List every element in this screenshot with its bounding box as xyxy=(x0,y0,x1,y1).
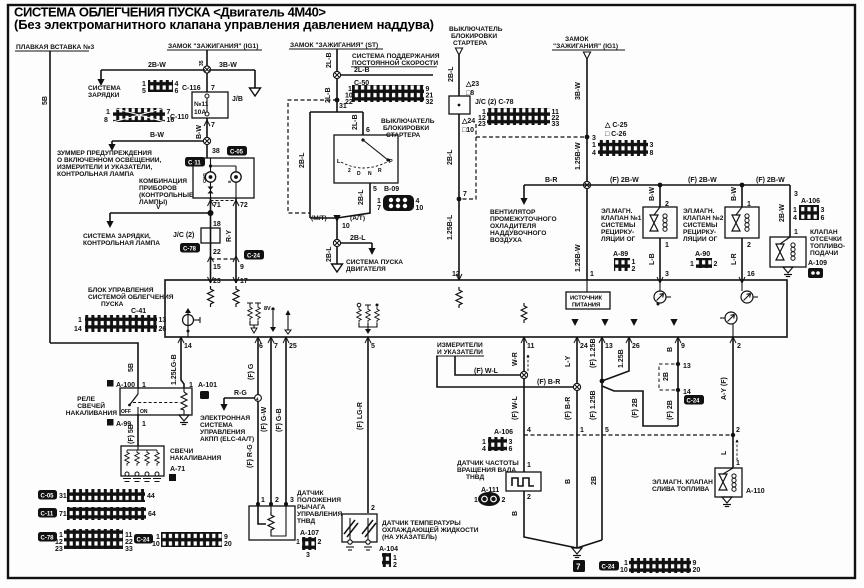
svg-text:НАКАЛИВАНИЯ: НАКАЛИВАНИЯ xyxy=(66,410,117,417)
svg-text:16: 16 xyxy=(747,271,755,278)
svg-text:10A: 10A xyxy=(194,109,206,116)
svg-text:9: 9 xyxy=(224,534,228,541)
svg-text:B-W: B-W xyxy=(150,132,164,139)
svg-text:7: 7 xyxy=(463,191,467,198)
svg-text:V: V xyxy=(156,204,161,211)
svg-text:1: 1 xyxy=(78,317,82,324)
svg-text:1: 1 xyxy=(482,439,486,446)
svg-text:8V: 8V xyxy=(264,306,271,312)
svg-text:23: 23 xyxy=(478,121,486,128)
svg-text:3: 3 xyxy=(290,497,294,504)
svg-text:(F) R-G: (F) R-G xyxy=(247,444,254,468)
wire pin24 down to ground xyxy=(576,337,578,548)
fuel cut-off valve A-109 xyxy=(770,237,806,267)
svg-text:НАКАЛИВАНИЯ: НАКАЛИВАНИЯ xyxy=(170,455,221,462)
svg-text:B-W: B-W xyxy=(196,125,203,139)
svg-text:C-78: C-78 xyxy=(183,247,197,253)
svg-text:4: 4 xyxy=(793,215,797,222)
svg-text:6: 6 xyxy=(821,215,825,222)
svg-text:"ЗАЖИГАНИЯ" (IG1): "ЗАЖИГАНИЯ" (IG1) xyxy=(553,43,618,50)
svg-text:СИСТЕМЫ: СИСТЕМЫ xyxy=(683,222,718,229)
svg-text:1: 1 xyxy=(106,109,110,116)
svg-text:1: 1 xyxy=(624,560,628,567)
svg-text:2: 2 xyxy=(348,168,351,174)
svg-text:2B: 2B xyxy=(591,476,598,485)
svg-text:ДАТЧИК ТЕМПЕРАТУРЫ: ДАТЧИК ТЕМПЕРАТУРЫ xyxy=(382,520,461,527)
svg-text:23: 23 xyxy=(213,278,221,285)
svg-text:(F) G-B: (F) G-B xyxy=(276,408,283,432)
svg-text:2B-L: 2B-L xyxy=(350,235,366,242)
svg-text:B: B xyxy=(512,511,519,516)
svg-text:1: 1 xyxy=(793,207,797,214)
svg-text:L: L xyxy=(721,450,728,455)
svg-text:ЗАМОК: ЗАМОК xyxy=(565,36,590,43)
driver symbol above pin2 xyxy=(720,312,737,337)
svg-text:13: 13 xyxy=(683,363,691,370)
svg-text:32: 32 xyxy=(426,99,434,106)
svg-text:C-24: C-24 xyxy=(602,565,616,571)
svg-text:20: 20 xyxy=(693,567,701,574)
svg-text:6: 6 xyxy=(175,88,179,95)
svg-text:ВЫКЛЮЧАТЕЛЬ: ВЫКЛЮЧАТЕЛЬ xyxy=(449,26,503,33)
svg-text:ПРИБОРОВ: ПРИБОРОВ xyxy=(139,185,177,192)
svg-text:OFF: OFF xyxy=(121,409,131,415)
connector row C-78 bottom xyxy=(38,529,133,553)
svg-text:5: 5 xyxy=(373,186,377,193)
svg-text:ПУСКА: ПУСКА xyxy=(101,301,124,308)
current source symbol near pin14 xyxy=(183,308,201,337)
svg-text:L-Y: L-Y xyxy=(565,355,572,367)
svg-text:И УКАЗАТЕЛИ: И УКАЗАТЕЛИ xyxy=(437,349,483,356)
connector A-109 xyxy=(808,268,823,278)
svg-text:10: 10 xyxy=(342,223,350,230)
svg-text:СВЕЧЕЙ: СВЕЧЕЙ xyxy=(77,401,105,410)
wire 5B vertical from fusible link xyxy=(49,51,51,343)
resistor above pin11 xyxy=(521,303,527,323)
connector C-110 xyxy=(104,108,189,124)
fuel drain solenoid valve A-110 xyxy=(715,468,742,497)
wire B-R / (F)2B-W horizontal bus xyxy=(524,184,790,186)
svg-text:18: 18 xyxy=(213,221,221,228)
svg-text:2: 2 xyxy=(318,539,322,546)
svg-text:ИСТОЧНИК: ИСТОЧНИК xyxy=(570,296,603,302)
svg-text:10: 10 xyxy=(620,567,628,574)
svg-text:5: 5 xyxy=(371,343,375,350)
svg-text:C-24: C-24 xyxy=(137,538,151,544)
svg-text:ОХЛАЖДАЮЩЕЙ ЖИДКОСТИ: ОХЛАЖДАЮЩЕЙ ЖИДКОСТИ xyxy=(382,525,479,534)
wire (F)B-R from gauges to pin24 wire xyxy=(437,356,573,387)
svg-text:3: 3 xyxy=(592,135,596,142)
svg-text:ЛЯЦИИ ОГ: ЛЯЦИИ ОГ xyxy=(683,236,718,243)
svg-text:АКПП (ELC-4A/T): АКПП (ELC-4A/T) xyxy=(200,436,254,443)
svg-text:C-24: C-24 xyxy=(687,399,701,405)
wire pin13 down xyxy=(601,337,603,540)
wire IG1 below J/B xyxy=(206,118,208,158)
wire relay to glow plugs xyxy=(137,414,139,446)
output driver arrows inside box xyxy=(571,319,578,326)
svg-text:A-109: A-109 xyxy=(808,260,827,267)
svg-text:1: 1 xyxy=(592,142,596,149)
svg-text:(Без электромагнитного клапана: (Без электромагнитного клапана управлени… xyxy=(14,17,434,32)
svg-text:44: 44 xyxy=(147,493,155,500)
svg-text:13: 13 xyxy=(605,343,613,350)
svg-text:2: 2 xyxy=(747,242,751,249)
wire IG1 main vertical xyxy=(206,50,208,92)
svg-text:1.25B: 1.25B xyxy=(618,349,625,368)
ground below relay xyxy=(179,415,189,425)
svg-text:КЛАПАН №2: КЛАПАН №2 xyxy=(683,215,724,222)
svg-text:2: 2 xyxy=(737,343,741,350)
svg-text:7: 7 xyxy=(274,343,278,350)
svg-text:□ C-26: □ C-26 xyxy=(605,131,626,138)
svg-text:14: 14 xyxy=(683,389,691,396)
svg-text:(КОНТРОЛЬНЫЕ: (КОНТРОЛЬНЫЕ xyxy=(139,192,194,199)
svg-text:1.25B-L: 1.25B-L xyxy=(447,214,454,240)
svg-text:2: 2 xyxy=(714,261,718,268)
svg-text:J/C (2) C-78: J/C (2) C-78 xyxy=(475,99,514,106)
wire interlock vertical xyxy=(458,57,460,96)
divider resistors with 8V xyxy=(247,303,291,334)
wire pin11 down to pump speed sensor xyxy=(523,337,525,472)
svg-text:(F) 1.25B: (F) 1.25B xyxy=(590,338,597,368)
node gauges and meters label xyxy=(436,342,484,356)
ground below drain valve xyxy=(722,497,732,507)
svg-text:1: 1 xyxy=(59,532,63,539)
svg-text:РЕЦИРКУ-: РЕЦИРКУ- xyxy=(683,229,716,236)
svg-text:J/C (2): J/C (2) xyxy=(173,232,194,239)
wire pin26 joins pin13 wire xyxy=(602,337,629,381)
junction B-W branch to buzzer xyxy=(203,137,210,144)
wire down to EGR valve 1 xyxy=(658,183,663,188)
svg-text:ВЕНТИЛЯТОР: ВЕНТИЛЯТОР xyxy=(490,209,536,216)
svg-text:ИЗМЕРИТЕЛИ: ИЗМЕРИТЕЛИ xyxy=(437,342,483,349)
dashed connector line bottom xyxy=(524,434,733,436)
svg-text:(F) 2B: (F) 2B xyxy=(667,400,674,420)
svg-text:КОНТРОЛЬНАЯ ЛАМПА: КОНТРОЛЬНАЯ ЛАМПА xyxy=(57,171,134,178)
svg-text:5: 5 xyxy=(142,88,146,95)
svg-text:РЫЧАГА: РЫЧАГА xyxy=(297,504,326,511)
svg-text:О ВКЛЮЧЕННОМ ОСВЕЩЕНИИ,: О ВКЛЮЧЕННОМ ОСВЕЩЕНИИ, xyxy=(57,157,162,164)
connector tag A-99 xyxy=(107,419,146,428)
svg-text:ДАТЧИК ЧАСТОТЫ: ДАТЧИК ЧАСТОТЫ xyxy=(457,460,519,467)
svg-text:24: 24 xyxy=(580,343,588,350)
wire 5B elbow to relay xyxy=(50,343,138,388)
power source box xyxy=(566,280,610,309)
svg-text:ДАТЧИК: ДАТЧИК xyxy=(297,490,325,497)
starter lockout switch box xyxy=(334,135,398,183)
svg-text:КОМБИНАЦИЯ: КОМБИНАЦИЯ xyxy=(139,178,187,185)
svg-text:B: B xyxy=(565,479,572,484)
svg-text:□10: □10 xyxy=(462,127,474,134)
svg-text:C-41: C-41 xyxy=(131,308,146,315)
svg-text:5: 5 xyxy=(605,427,609,434)
svg-text:(F) G: (F) G xyxy=(248,363,255,380)
svg-text:A-104: A-104 xyxy=(379,546,398,553)
svg-text:2B: 2B xyxy=(663,372,670,381)
svg-text:2: 2 xyxy=(393,562,397,569)
svg-text:ЗАМОК "ЗАЖИГАНИЯ" (ST): ЗАМОК "ЗАЖИГАНИЯ" (ST) xyxy=(290,42,378,49)
svg-text:СТАРТЕРА: СТАРТЕРА xyxy=(453,40,488,47)
svg-text:2L-B: 2L-B xyxy=(354,67,370,74)
svg-text:КОНТРОЛЬНАЯ ЛАМПА: КОНТРОЛЬНАЯ ЛАМПА xyxy=(83,240,160,247)
svg-text:11: 11 xyxy=(527,343,535,350)
svg-text:(F) 2B-W: (F) 2B-W xyxy=(688,177,717,184)
svg-text:БЛОК УПРАВЛЕНИЯ: БЛОК УПРАВЛЕНИЯ xyxy=(88,287,154,294)
junction 4 branch R-G to ELC AT xyxy=(255,395,262,402)
EGR valve no.1 A-89 xyxy=(643,207,677,238)
svg-text:1: 1 xyxy=(377,198,381,205)
svg-text:B-09: B-09 xyxy=(384,186,399,193)
svg-text:20: 20 xyxy=(224,541,232,548)
svg-text:(НА УКАЗАТЕЛЬ): (НА УКАЗАТЕЛЬ) xyxy=(382,534,437,541)
svg-text:2B-L: 2B-L xyxy=(447,149,454,165)
svg-text:5B: 5B xyxy=(128,363,135,372)
svg-text:1: 1 xyxy=(690,261,694,268)
svg-text:РЕЦИРКУ-: РЕЦИРКУ- xyxy=(601,229,634,236)
svg-text:3: 3 xyxy=(306,552,310,559)
svg-text:L-R: L-R xyxy=(731,253,738,265)
svg-text:7: 7 xyxy=(211,85,215,92)
svg-text:3: 3 xyxy=(509,439,513,446)
svg-text:1.25LG-B: 1.25LG-B xyxy=(171,354,178,385)
svg-text:ЭЛ.МАГН.: ЭЛ.МАГН. xyxy=(683,208,715,215)
junction to engine start system xyxy=(333,239,340,246)
node ignition switch IG1 label xyxy=(167,43,262,50)
connector C-24 bottom center xyxy=(599,558,700,574)
svg-text:C-110: C-110 xyxy=(170,114,189,121)
svg-text:L-B: L-B xyxy=(649,253,656,265)
connector C-50 xyxy=(345,85,433,106)
connector row C-05 bottom xyxy=(38,489,155,502)
svg-text:ПРОМЕЖУТОЧНОГО: ПРОМЕЖУТОЧНОГО xyxy=(490,216,557,223)
svg-text:(F) 2B-W: (F) 2B-W xyxy=(756,177,785,184)
svg-text:A-Y (F): A-Y (F) xyxy=(721,377,728,400)
svg-text:ПЛАВКАЯ ВСТАВКА №3: ПЛАВКАЯ ВСТАВКА №3 xyxy=(16,44,94,51)
svg-text:№11: №11 xyxy=(194,101,209,108)
wire L-R to control box pin 16 xyxy=(741,238,743,280)
ground of ST wire xyxy=(332,264,343,272)
svg-text:9: 9 xyxy=(681,343,685,350)
wire arrow down to intercooler fan xyxy=(523,185,525,198)
svg-text:R-Y: R-Y xyxy=(226,230,233,242)
joint connector J/C(2) right on interlock wire xyxy=(449,96,514,114)
svg-text:W-R: W-R xyxy=(512,352,519,366)
svg-text:1: 1 xyxy=(632,259,636,266)
svg-text:C-78: C-78 xyxy=(41,536,55,542)
svg-text:A-89: A-89 xyxy=(613,251,628,258)
svg-text:C-05: C-05 xyxy=(41,494,55,500)
svg-text:72: 72 xyxy=(240,202,248,209)
M/T A/T merge xyxy=(310,217,337,219)
svg-text:(F) B-R: (F) B-R xyxy=(537,379,560,386)
svg-text:УПРАВЛЕНИЯ: УПРАВЛЕНИЯ xyxy=(297,511,343,518)
svg-text:ТОПЛИВО-: ТОПЛИВО- xyxy=(810,243,845,250)
wire down to fuel cut valve xyxy=(789,185,791,237)
resistor above pin12 wire xyxy=(456,287,462,308)
svg-text:7: 7 xyxy=(211,122,215,129)
svg-text:C-05: C-05 xyxy=(230,150,244,156)
wire branch to cruise control xyxy=(340,74,433,76)
svg-text:2: 2 xyxy=(527,494,531,501)
branch (F)2B loop to pin9 wire xyxy=(602,386,678,426)
svg-text:6: 6 xyxy=(259,343,263,350)
connector row C-11 bottom xyxy=(38,507,156,520)
svg-text:38: 38 xyxy=(212,148,220,155)
wire L-B to control box pin 3 xyxy=(659,238,661,280)
svg-text:R-G: R-G xyxy=(234,390,247,397)
svg-text:КЛАПАН: КЛАПАН xyxy=(810,229,838,236)
svg-text:1: 1 xyxy=(142,421,146,428)
svg-text:ОТСЕЧКИ: ОТСЕЧКИ xyxy=(810,236,842,243)
svg-text:2B-W: 2B-W xyxy=(148,62,166,69)
svg-text:B-R: B-R xyxy=(545,177,557,184)
svg-text:КЛАПАН №1: КЛАПАН №1 xyxy=(601,215,642,222)
svg-text:31: 31 xyxy=(339,103,347,110)
svg-text:△23: △23 xyxy=(465,81,479,88)
svg-text:ВРАЩЕНИЯ ВАЛА: ВРАЩЕНИЯ ВАЛА xyxy=(457,467,516,474)
transistor symbol below pin3 xyxy=(654,280,671,306)
svg-text:ВОЗДУХА: ВОЗДУХА xyxy=(490,237,522,244)
top pin forks into control box xyxy=(208,277,214,283)
svg-text:9: 9 xyxy=(240,264,244,271)
svg-text:4: 4 xyxy=(527,427,531,434)
svg-text:A-101: A-101 xyxy=(198,382,217,389)
wire ST vertical xyxy=(336,49,338,112)
svg-text:ЗУММЕР ПРЕДУПРЕЖДЕНИЯ: ЗУММЕР ПРЕДУПРЕЖДЕНИЯ xyxy=(57,150,152,157)
svg-text:C-24: C-24 xyxy=(247,254,261,260)
svg-text:12: 12 xyxy=(55,539,63,546)
svg-text:23: 23 xyxy=(55,546,63,553)
svg-text:6: 6 xyxy=(509,446,513,453)
svg-text:15: 15 xyxy=(213,264,221,271)
svg-text:1: 1 xyxy=(665,242,669,249)
dashed link from J/C to IG1-right wire xyxy=(476,124,587,137)
dashed link pins 15/9 xyxy=(211,258,237,260)
wire (F)W-L from gauges to pin11 wire xyxy=(455,356,520,375)
svg-text:B: B xyxy=(667,347,674,352)
svg-text:2L-B: 2L-B xyxy=(352,114,359,130)
svg-text:ЗАМОК "ЗАЖИГАНИЯ" (IG1): ЗАМОК "ЗАЖИГАНИЯ" (IG1) xyxy=(168,43,258,50)
joint connector J/C (2) left xyxy=(173,228,220,243)
svg-text:БЛОКИРОВКИ: БЛОКИРОВКИ xyxy=(383,125,429,132)
svg-text:ПИТАНИЯ: ПИТАНИЯ xyxy=(572,303,600,309)
svg-text:ЛАМПЫ): ЛАМПЫ) xyxy=(139,199,167,206)
svg-text:СИСТЕМЫ: СИСТЕМЫ xyxy=(601,222,636,229)
svg-text:1: 1 xyxy=(296,539,300,546)
svg-text:8: 8 xyxy=(104,117,108,124)
svg-text:ПОЛОЖЕНИЯ: ПОЛОЖЕНИЯ xyxy=(297,497,341,504)
svg-text:2: 2 xyxy=(275,497,279,504)
connector B-09 xyxy=(377,195,423,212)
svg-text:B-W: B-W xyxy=(649,187,656,201)
svg-text:2L-B: 2L-B xyxy=(326,52,333,68)
svg-text:(F) G-W: (F) G-W xyxy=(261,406,268,432)
svg-text:P: P xyxy=(389,159,393,165)
svg-text:R: R xyxy=(378,168,382,174)
svg-text:СИСТЕМА: СИСТЕМА xyxy=(88,85,121,92)
svg-text:1: 1 xyxy=(794,229,798,236)
svg-text:25: 25 xyxy=(289,343,297,350)
wire (F)LG-R from pin5 to coolant temp sensor xyxy=(367,337,369,513)
node ignition switch IG1 right label xyxy=(552,36,625,50)
svg-text:(F) B-R: (F) B-R xyxy=(565,397,572,420)
svg-text:ТНВД: ТНВД xyxy=(297,518,315,525)
svg-text:СТАРТЕРА: СТАРТЕРА xyxy=(386,132,421,139)
svg-text:СИСТЕМА ПОДДЕРЖАНИЯ: СИСТЕМА ПОДДЕРЖАНИЯ xyxy=(352,53,440,60)
svg-text:СЛИВА ТОПЛИВА: СЛИВА ТОПЛИВА xyxy=(652,486,710,493)
resistor inside above pin17 xyxy=(233,286,239,307)
svg-text:10: 10 xyxy=(416,205,424,212)
lamp CHG xyxy=(205,172,215,182)
svg-text:1: 1 xyxy=(590,271,594,278)
junction 31 on ST wire xyxy=(335,98,340,103)
svg-text:1: 1 xyxy=(527,462,531,469)
svg-text:9: 9 xyxy=(693,560,697,567)
svg-text:7: 7 xyxy=(576,563,581,572)
connector C-78 big top right xyxy=(478,108,559,128)
resistor inside above pin23 xyxy=(208,286,214,307)
svg-text:A-106: A-106 xyxy=(494,429,513,436)
svg-text:НАДДУВОЧНОГО: НАДДУВОЧНОГО xyxy=(490,230,546,237)
svg-text:1: 1 xyxy=(142,81,146,88)
svg-text:ИЗМЕРИТЕЛИ И УКАЗАТЕЛИ,: ИЗМЕРИТЕЛИ И УКАЗАТЕЛИ, xyxy=(57,164,152,171)
svg-text:A-71: A-71 xyxy=(170,466,185,473)
junction charging lamp branch xyxy=(208,210,214,216)
svg-text:17: 17 xyxy=(240,278,248,285)
coolant temperature sensor box xyxy=(342,514,377,550)
connector C-78 tag left xyxy=(180,243,200,253)
svg-text:(F) W-L: (F) W-L xyxy=(474,368,499,375)
svg-text:22: 22 xyxy=(125,539,133,546)
svg-text:31: 31 xyxy=(59,493,67,500)
svg-text:ЗАРЯДКИ: ЗАРЯДКИ xyxy=(88,92,120,99)
svg-text:A-106: A-106 xyxy=(801,198,820,205)
svg-text:7: 7 xyxy=(377,205,381,212)
svg-text:(F) 5B: (F) 5B xyxy=(128,424,135,444)
wire lamp1 down to control box pin 23 xyxy=(210,198,212,283)
svg-text:ЭЛ.МАГН. КЛАПАН: ЭЛ.МАГН. КЛАПАН xyxy=(652,479,713,486)
svg-text:СИСТЕМА ЗАРЯДКИ,: СИСТЕМА ЗАРЯДКИ, xyxy=(83,233,151,240)
wire IG1 right vertical xyxy=(586,59,588,280)
svg-text:11: 11 xyxy=(125,532,133,539)
svg-text:(F) 2B: (F) 2B xyxy=(632,398,639,418)
connector tag A-100 xyxy=(107,380,146,389)
dashed link under meter box xyxy=(211,200,237,202)
svg-text:ЭЛЕКТРОННАЯ: ЭЛЕКТРОННАЯ xyxy=(200,415,250,422)
node ignition switch ST label xyxy=(289,42,383,49)
svg-text:1: 1 xyxy=(393,555,397,562)
connector C-11 tag xyxy=(185,157,205,167)
svg-text:10: 10 xyxy=(152,541,160,548)
EGR valve no.2 A-90 xyxy=(725,207,759,238)
transistor symbol below pin16 xyxy=(741,280,758,303)
svg-text:ТНВД: ТНВД xyxy=(466,474,484,481)
glow plug relay box xyxy=(120,388,192,415)
svg-text:5B: 5B xyxy=(42,96,49,105)
svg-text:ОХЛАДИТЕЛЯ: ОХЛАДИТЕЛЯ xyxy=(490,223,536,230)
wire (F)G from pin6 xyxy=(257,337,259,506)
wire interlock continues down xyxy=(458,114,460,280)
svg-text:4: 4 xyxy=(482,446,486,453)
svg-text:ПОСТОЯННОЙ СКОРОСТИ: ПОСТОЯННОЙ СКОРОСТИ xyxy=(352,58,438,67)
svg-text:1: 1 xyxy=(156,534,160,541)
svg-text:A-110: A-110 xyxy=(746,488,765,495)
svg-text:D: D xyxy=(357,171,361,177)
svg-text:33: 33 xyxy=(552,121,560,128)
connector tag A-101 black square xyxy=(200,391,209,399)
svg-text:CHG: CHG xyxy=(202,173,207,183)
wire pin2 down to drain valve xyxy=(732,337,734,468)
